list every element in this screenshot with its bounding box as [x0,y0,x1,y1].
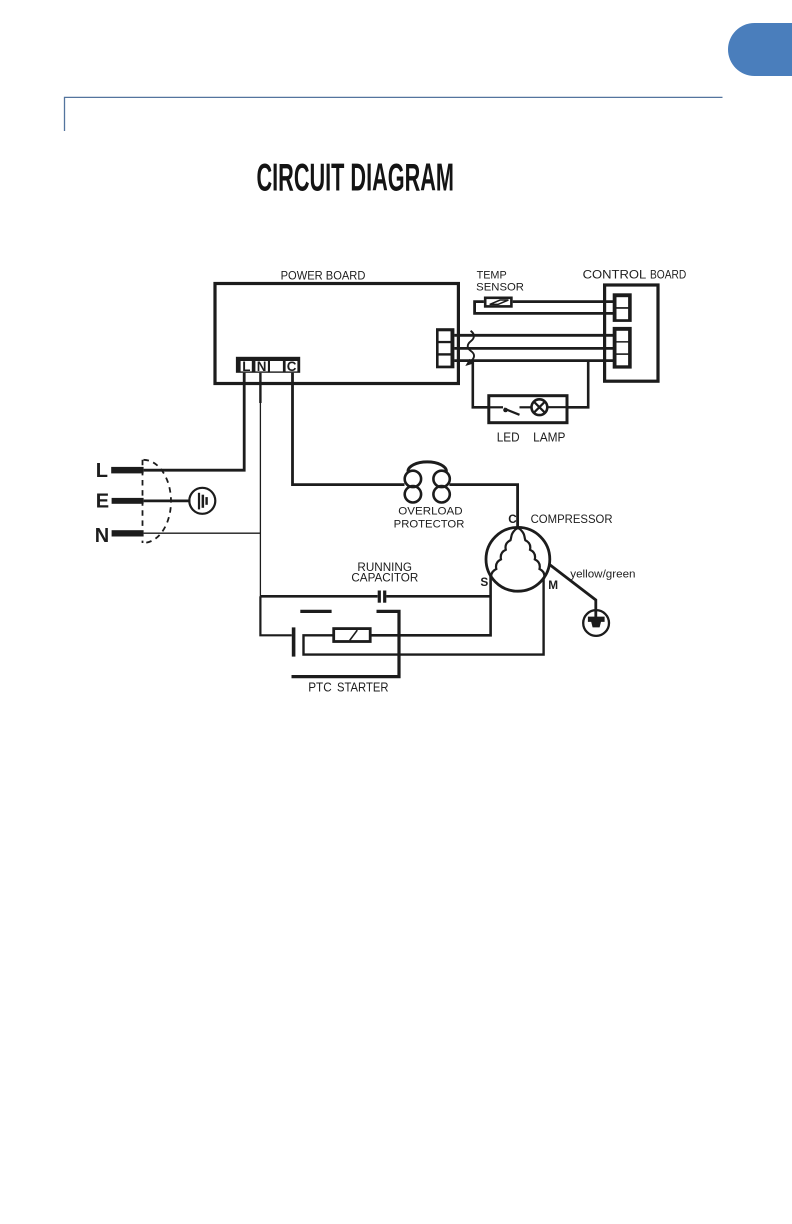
svg-text:PROTECTOR: PROTECTOR [394,519,465,531]
svg-text:STARTER: STARTER [337,680,389,695]
svg-text:CIRCUIT DIAGRAM: CIRCUIT DIAGRAM [257,157,455,200]
svg-text:S: S [480,575,488,589]
svg-text:BOARD: BOARD [650,268,686,282]
svg-text:C: C [508,512,517,526]
svg-text:TEMP: TEMP [477,270,507,282]
svg-text:N: N [257,359,267,374]
svg-text:C: C [287,359,297,374]
svg-text:L: L [96,460,108,482]
svg-text:OVERLOAD: OVERLOAD [398,505,463,517]
svg-text:L: L [242,359,250,374]
svg-text:LAMP: LAMP [533,431,565,445]
svg-text:SENSOR: SENSOR [476,281,524,293]
svg-text:M: M [548,578,558,592]
svg-text:POWER BOARD: POWER BOARD [281,268,366,282]
svg-text:LED: LED [497,431,520,445]
svg-text:yellow/green: yellow/green [570,569,635,581]
svg-text:CONTROL: CONTROL [583,268,647,282]
svg-text:COMPRESSOR: COMPRESSOR [531,513,613,526]
svg-text:N: N [95,525,109,547]
svg-text:PTC: PTC [308,680,332,695]
svg-text:E: E [96,490,109,512]
svg-text:CAPACITOR: CAPACITOR [351,572,418,585]
